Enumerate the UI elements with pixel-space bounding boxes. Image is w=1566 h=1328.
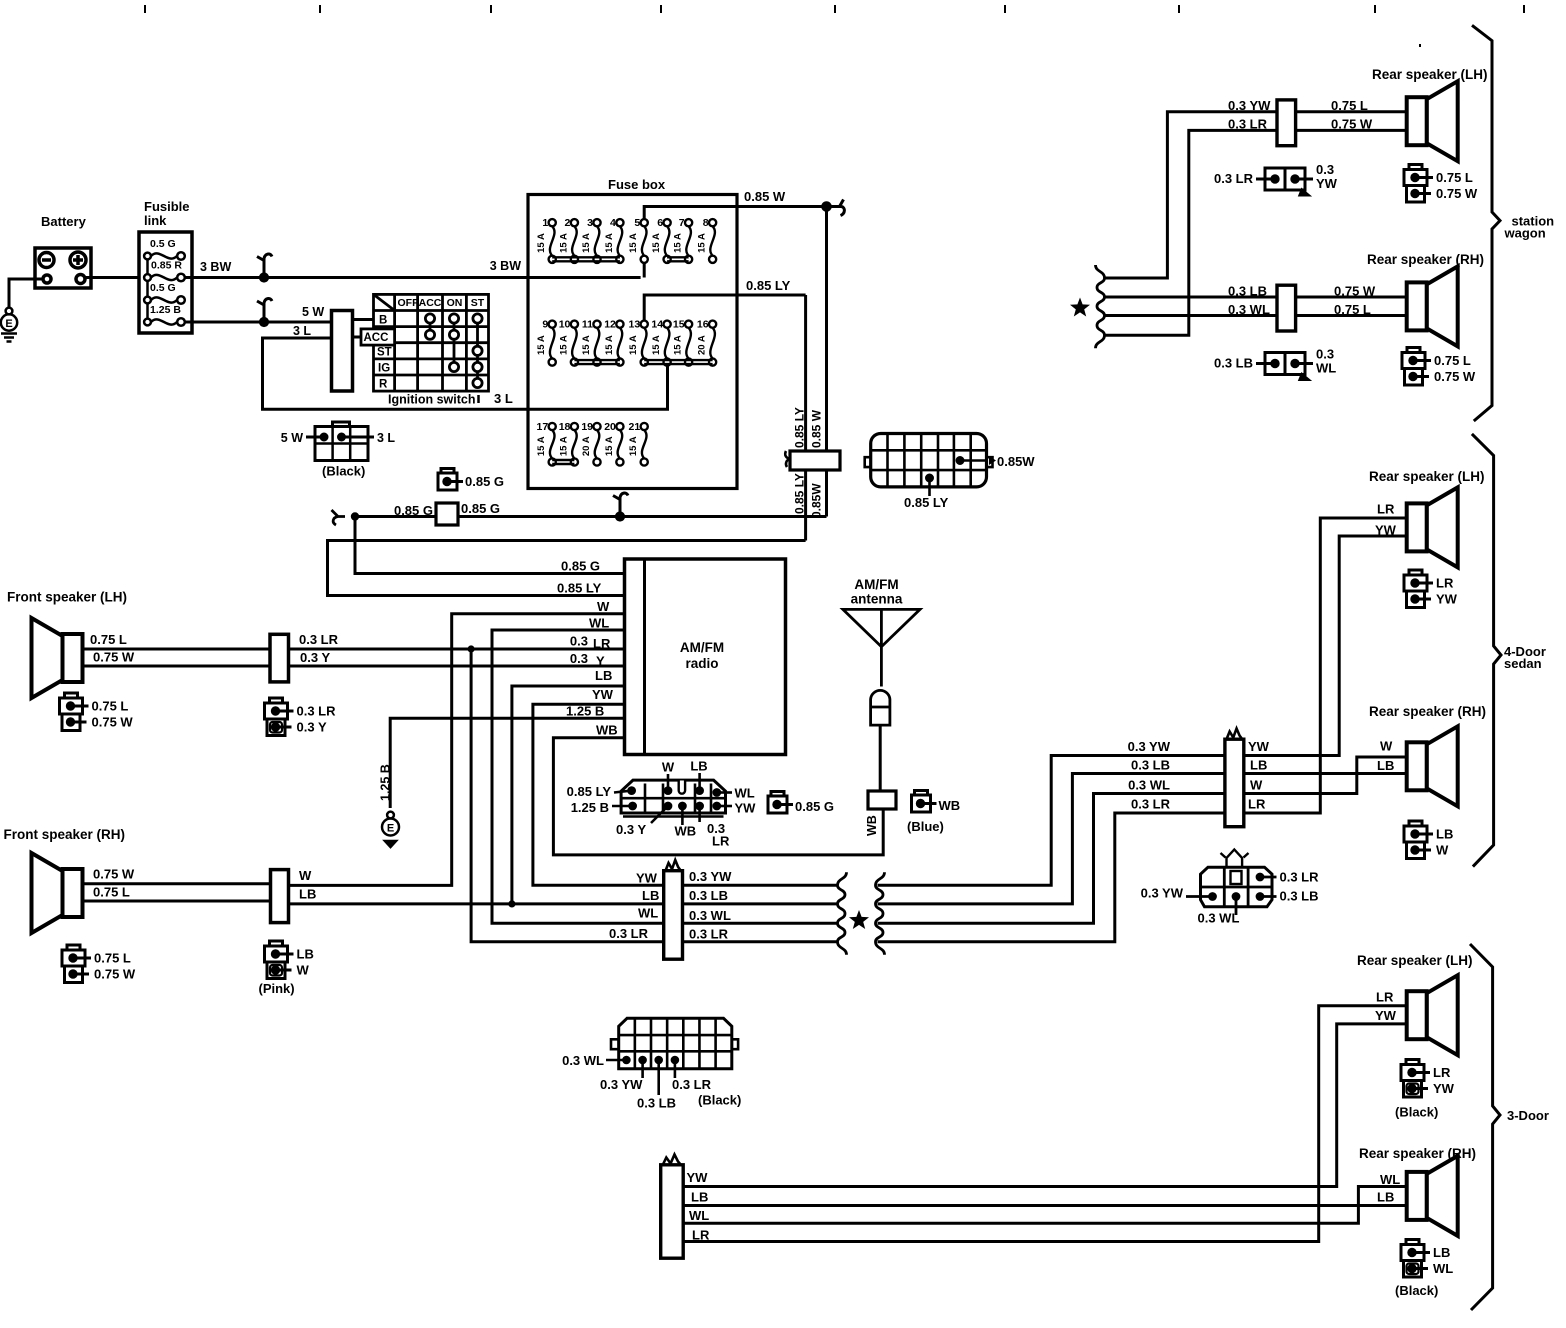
break brace right (star) [876,872,885,954]
svg-text:3 BW: 3 BW [200,260,231,274]
wire 0.75W front RH [83,882,271,885]
svg-text:1.25 B: 1.25 B [571,800,609,815]
svg-text:0.3 LR: 0.3 LR [1280,870,1320,885]
svg-text:0.3 LB: 0.3 LB [1228,284,1267,299]
svg-text:0.85 R: 0.85 R [151,260,182,272]
svg-text:LR: LR [1436,576,1454,591]
svg-text:0.5 G: 0.5 G [150,282,176,294]
svg-text:YW: YW [1316,176,1338,191]
svg-text:15 A: 15 A [581,233,592,253]
wire WL 3-door [683,1187,1406,1224]
svg-text:3 L: 3 L [377,431,395,445]
antenna plug capsule [871,690,890,725]
svg-text:1: 1 [542,217,548,229]
svg-text:5 W: 5 W [281,431,303,445]
svg-text:15: 15 [673,319,685,331]
svg-text:15 A: 15 A [604,436,615,456]
svg-text:12: 12 [604,319,616,331]
svg-text:ACC: ACC [364,332,389,344]
svg-text:3 L: 3 L [494,391,513,406]
svg-text:15 A: 15 A [628,335,639,355]
svg-text:W: W [299,868,312,883]
svg-text:0.85 LY: 0.85 LY [793,407,807,448]
svg-text:WL: WL [735,786,755,801]
svg-text:10: 10 [559,319,571,331]
svg-text:OFF: OFF [398,297,420,309]
svg-text:(Blue): (Blue) [907,819,944,834]
svg-text:YW: YW [1375,523,1397,538]
svg-text:18: 18 [559,421,571,433]
svg-text:17: 17 [537,421,549,433]
svg-text:0.3 LR: 0.3 LR [609,926,649,941]
svg-text:15 A: 15 A [628,436,639,456]
wire 3BW fusible link to fuse box [185,276,528,279]
svg-text:0.75 W: 0.75 W [1331,117,1373,132]
connector 0.85G pigtail icon [771,792,784,797]
svg-text:LB: LB [1377,758,1394,773]
svg-text:20: 20 [604,421,616,433]
svg-text:0.85 G: 0.85 G [561,559,600,574]
svg-text:15 A: 15 A [651,335,662,355]
svg-text:1.25 B: 1.25 B [566,704,604,719]
svg-text:11: 11 [582,319,593,331]
bracket 4-door sedan [1472,434,1501,867]
ignition harness connector (Black) [281,422,396,479]
svg-text:15 A: 15 A [536,436,547,456]
svg-text:0.3 Y: 0.3 Y [297,720,327,735]
fuse row 3 (fuses 17-21) [536,421,648,466]
svg-text:0.3 LB: 0.3 LB [1214,356,1253,371]
svg-text:WL: WL [638,906,658,921]
svg-text:15 A: 15 A [604,233,615,253]
svg-text:LB: LB [690,759,707,774]
svg-text:0.3 WL: 0.3 WL [562,1053,604,1068]
connector pair LB/W (Pink) [270,941,283,946]
svg-text:LB: LB [1377,1190,1394,1205]
svg-text:3 BW: 3 BW [490,259,521,273]
svg-text:0.3 LR: 0.3 LR [299,632,339,647]
break brace left (star) [838,872,847,954]
break brace (station wagon) [1096,265,1105,348]
wire 3L inside fuse box [528,364,668,409]
svg-text:antenna: antenna [851,592,903,607]
svg-text:W: W [1380,739,1393,754]
wire 0.75L front LH [83,648,271,651]
svg-text:19: 19 [581,421,593,433]
svg-text:WB: WB [865,815,879,836]
wire LB C2 to sedan speaker RH [1244,772,1407,775]
svg-text:0.85 LY: 0.85 LY [567,784,612,799]
svg-text:0.85W: 0.85W [810,483,824,518]
svg-text:0.3 LR: 0.3 LR [297,704,337,719]
svg-text:WB: WB [939,798,961,813]
svg-text:0.3 YW: 0.3 YW [689,869,732,884]
wire 0.85LY fuse box to radio [328,295,806,596]
wire 0.3WL to wagon speaker RH [1104,314,1277,317]
svg-text:0.75 L: 0.75 L [1434,353,1471,368]
svg-text:W: W [597,599,610,614]
svg-text:(Black): (Black) [1395,1105,1438,1120]
svg-text:0.85 G: 0.85 G [465,474,504,489]
wire YW radio to bus [533,704,664,885]
svg-text:0.75 W: 0.75 W [94,967,136,982]
wire 1.25B radio to ground [390,718,624,808]
svg-text:4: 4 [610,217,616,229]
svg-text:0.75 L: 0.75 L [90,632,127,647]
svg-text:AM/FM: AM/FM [854,577,898,592]
harness connector 18-pin (Black) [562,1018,741,1110]
svg-text:0.3 WL: 0.3 WL [1198,911,1240,926]
svg-text:WL: WL [1433,1261,1453,1276]
svg-text:0.85 LY: 0.85 LY [746,278,791,293]
svg-text:W: W [1250,778,1263,793]
svg-text:0.3 LR: 0.3 LR [689,927,729,942]
inline connector front LH [270,634,289,682]
svg-text:7: 7 [679,217,685,229]
svg-text:ACC: ACC [419,297,442,309]
ignition switch [361,294,489,391]
svg-text:W: W [662,760,675,775]
svg-text:20 A: 20 A [581,436,592,456]
svg-text:(Pink): (Pink) [259,981,295,996]
svg-text:0.75 L: 0.75 L [1436,170,1473,185]
star symbol (middle) [849,910,869,929]
svg-text:0.75 W: 0.75 W [93,650,135,665]
svg-text:14: 14 [651,319,663,331]
svg-text:0.85 G: 0.85 G [795,799,834,814]
svg-text:15 A: 15 A [673,335,684,355]
svg-text:(Black): (Black) [322,464,365,479]
junction 0.85W [823,203,831,211]
svg-text:0.3 YW: 0.3 YW [1228,98,1271,113]
svg-text:0.3 LB: 0.3 LB [1280,889,1319,904]
connector 0.85G pigtail icon (near ignition) [441,469,454,474]
svg-text:0.3 LR: 0.3 LR [672,1077,712,1092]
wires C1 to break [683,885,838,941]
wire WB radio to antenna lead [553,738,883,855]
svg-text:15 A: 15 A [604,335,615,355]
harness connector 6-pin (sedan) [1141,850,1320,926]
wire 0.3LR to radio [289,648,625,651]
page tick marks [145,5,1524,47]
wire 0.75L wagon RH [1296,314,1407,317]
svg-text:6: 6 [657,217,663,229]
svg-text:R: R [379,379,388,391]
inline connector (3-door feed) [662,1155,682,1167]
svg-text:15 A: 15 A [673,233,684,253]
wire 0.75W wagon RH [1296,296,1407,299]
svg-text:5: 5 [634,217,640,229]
svg-text:0.75 W: 0.75 W [1436,186,1478,201]
svg-text:YW: YW [1248,739,1270,754]
svg-text:AM/FM: AM/FM [680,640,724,655]
break end on 0.85 G wire [332,510,346,525]
svg-text:0.3 WL: 0.3 WL [1128,778,1170,793]
svg-text:0.75 L: 0.75 L [1334,302,1371,317]
svg-text:(Black): (Black) [698,1093,741,1108]
wire WL radio to bus [492,630,664,923]
svg-text:Front speaker (LH): Front speaker (LH) [7,590,127,605]
svg-text:0.85 LY: 0.85 LY [793,473,807,514]
svg-text:15 A: 15 A [581,335,592,355]
battery [35,214,91,288]
wire 0.75L wagon LH [1296,110,1407,113]
svg-text:Ignition switch: Ignition switch [388,393,476,407]
svg-text:15 A: 15 A [628,233,639,253]
svg-text:0.3: 0.3 [570,651,588,666]
wire 0.3LR junction to bus [471,649,664,942]
svg-text:0.85 W: 0.85 W [810,409,824,448]
connector WB (Blue) icon [915,791,928,796]
svg-text:0.75 W: 0.75 W [1434,369,1476,384]
svg-text:13: 13 [629,319,641,331]
svg-text:0.3: 0.3 [1316,162,1334,177]
svg-text:YW: YW [636,871,658,886]
connector pair 0.75L/0.75W (wagon RH) [1407,348,1420,353]
svg-text:radio: radio [685,656,718,671]
svg-text:0.3 LB: 0.3 LB [1131,758,1170,773]
svg-text:1.25 B: 1.25 B [150,304,181,316]
svg-text:0.75 W: 0.75 W [1334,284,1376,299]
svg-text:WB: WB [596,723,618,738]
svg-text:ON: ON [447,297,463,309]
svg-text:YW: YW [1436,592,1458,607]
svg-text:15 A: 15 A [558,335,569,355]
connector pair 0.75L/0.75W (front LH pigtail) [65,693,78,698]
svg-text:LB: LB [595,668,612,683]
svg-text:WL: WL [689,1208,709,1223]
wire YW C2 to sedan speaker LH [1244,536,1407,756]
svg-text:LB: LB [691,1190,708,1205]
svg-text:LR: LR [692,1228,710,1243]
svg-text:0.3 YW: 0.3 YW [1141,886,1184,901]
svg-text:0.75 L: 0.75 L [1331,98,1368,113]
svg-text:16: 16 [697,319,709,331]
svg-text:WB: WB [675,824,697,839]
antenna inline connector [868,791,896,809]
svg-text:15 A: 15 A [558,233,569,253]
wire 0.3Y to radio [289,665,625,668]
svg-text:LB: LB [1250,758,1267,773]
svg-text:WL: WL [589,616,609,631]
fusible link [139,199,192,333]
svg-text:0.3 LB: 0.3 LB [637,1096,676,1111]
wire 0.75W wagon LH [1296,129,1407,132]
fuse box harness grid connector [865,434,1036,511]
svg-text:YW: YW [687,1170,709,1185]
svg-text:LB: LB [1436,827,1453,842]
wire 0.75L front RH [83,900,271,903]
svg-text:YW: YW [1375,1008,1397,1023]
svg-text:WL: WL [1380,1172,1400,1187]
svg-text:15 A: 15 A [536,335,547,355]
svg-text:15 A: 15 A [558,436,569,456]
svg-text:LR: LR [712,834,730,849]
svg-text:LB: LB [642,888,659,903]
svg-text:3 L: 3 L [293,324,311,338]
wire 0.3LB to wagon speaker RH [1104,296,1277,299]
wire 0.85W fuse box to radio [528,263,644,278]
svg-text:sedan: sedan [1504,656,1542,671]
svg-text:ST: ST [377,347,392,359]
svg-text:15 A: 15 A [651,233,662,253]
wire 3L ignition switch to fuse box [263,338,529,409]
svg-text:(Black): (Black) [1395,1283,1438,1298]
svg-text:1.25 B: 1.25 B [379,764,393,801]
svg-text:0.3 LB: 0.3 LB [689,888,728,903]
bracket 3-door [1470,944,1500,1310]
svg-text:YW: YW [1433,1081,1455,1096]
svg-text:Rear speaker (LH): Rear speaker (LH) [1357,953,1473,968]
connector stub on 3BW wire [260,274,267,281]
svg-text:YW: YW [735,801,757,816]
svg-text:Rear speaker (LH): Rear speaker (LH) [1369,469,1485,484]
inline connector C2 [1226,729,1243,741]
inline connector C1 [665,860,681,872]
connector pair LR/YW (3-door LH, Black) [1406,1060,1419,1065]
svg-text:9: 9 [542,319,548,331]
svg-text:21: 21 [629,421,641,433]
svg-text:20 A: 20 A [697,335,708,355]
wire LB front RH to radio and connector [289,902,664,905]
svg-text:0.85 LY: 0.85 LY [904,495,949,510]
svg-text:0.3 LR: 0.3 LR [1131,797,1171,812]
svg-text:0.85 G: 0.85 G [394,503,433,518]
svg-text:Rear speaker (LH): Rear speaker (LH) [1372,67,1488,82]
connector stub on 0.85G wire [616,513,623,520]
svg-text:0.75 L: 0.75 L [93,885,130,900]
svg-text:8: 8 [703,217,709,229]
connector stub on 5W wire [260,318,267,325]
ground E (battery) [1,308,17,342]
svg-text:LR: LR [1377,502,1395,517]
svg-text:B: B [379,315,387,327]
svg-text:0.75 L: 0.75 L [92,699,129,714]
svg-text:ST: ST [471,297,485,309]
svg-text:0.3: 0.3 [570,634,588,649]
wires break to L-bends [878,756,1225,886]
svg-text:2: 2 [565,217,571,229]
svg-text:Front speaker (RH): Front speaker (RH) [4,827,126,842]
connector pair 0.75L/0.75W (front RH pigtail) [67,945,80,950]
svg-text:0.5 G: 0.5 G [150,238,176,250]
svg-text:IG: IG [378,363,390,375]
svg-text:0.3 YW: 0.3 YW [600,1077,643,1092]
svg-text:WL: WL [1316,361,1336,376]
ground E (radio) [382,812,399,847]
svg-text:0.75 W: 0.75 W [92,715,134,730]
svg-text:0.3 LR: 0.3 LR [1214,171,1254,186]
svg-text:0.3 LR: 0.3 LR [1228,117,1268,132]
connector pair 0.3LR/0.3YW (wagon LH) [1265,168,1285,190]
AM/FM radio [625,559,786,755]
wire 5W fusible link to ignition switch connector [185,321,332,324]
svg-text:0.3 Y: 0.3 Y [616,822,646,837]
svg-text:Fuse box: Fuse box [608,177,666,192]
inline connector (wagon LH) [1277,100,1296,146]
wire battery negative to ground [9,279,43,307]
connector pair 0.3LR/0.3Y (Black) [270,698,283,703]
svg-text:Rear speaker (RH): Rear speaker (RH) [1369,704,1486,719]
wire LB 3-door [683,1204,1406,1207]
svg-text:E: E [387,823,394,835]
connector pair LR/YW (sedan LH) [1409,570,1422,575]
svg-text:0.3 WL: 0.3 WL [689,908,731,923]
wire battery positive to fusible link [85,276,139,279]
svg-text:0.3 WL: 0.3 WL [1228,302,1270,317]
connector pair 0.75L/0.75W (wagon LH) [1409,165,1422,170]
inline connector (wagon RH) [1277,285,1296,331]
svg-text:Battery: Battery [41,214,87,229]
svg-text:3-Door: 3-Door [1507,1108,1549,1123]
wire YW 3-door [683,1024,1406,1187]
inline connector on 0.85G wire [436,503,458,525]
svg-text:LB: LB [1433,1245,1450,1260]
connector pair 0.3LB/0.3WL (wagon RH) [1265,353,1285,375]
connector pair LB/W (sedan RH) [1409,821,1422,826]
svg-text:0.3 Y: 0.3 Y [300,650,330,665]
svg-text:E: E [5,318,12,330]
ignition switch connector [332,311,353,392]
svg-text:3: 3 [587,217,593,229]
star symbol (station wagon) [1070,298,1090,317]
wire 0.3LR to wagon speaker LH [1104,130,1277,335]
wire 0.3YW to wagon speaker LH [1104,112,1277,278]
svg-text:0.75 L: 0.75 L [94,951,131,966]
wire W front RH to radio [289,614,625,886]
svg-text:YW: YW [592,687,614,702]
fuse row 1 (fuses 1-8, 15A) [536,217,716,263]
svg-text:LR: LR [1248,797,1266,812]
inline connector front RH [271,870,289,923]
bracket station wagon [1472,25,1500,421]
svg-text:0.85 W: 0.85 W [744,189,786,204]
svg-text:0.85 G: 0.85 G [461,501,500,516]
svg-text:0.85 LY: 0.85 LY [557,581,602,596]
svg-text:0.3 YW: 0.3 YW [1128,739,1171,754]
svg-text:Rear speaker (RH): Rear speaker (RH) [1367,252,1484,267]
fuse row 2 (fuses 9-16) [536,319,716,366]
svg-text:0.3: 0.3 [1316,347,1334,362]
svg-text:15 A: 15 A [697,233,708,253]
svg-text:0.75 W: 0.75 W [93,867,135,882]
connector pair LB/WL (3-door RH, Black) [1406,1240,1419,1245]
svg-text:wagon: wagon [1504,226,1546,241]
svg-text:LR: LR [1376,990,1394,1005]
svg-text:5 W: 5 W [302,305,324,319]
radio input labels [557,559,618,738]
wire W C2 to sedan speaker RH [1244,757,1407,794]
svg-text:15 A: 15 A [536,233,547,253]
svg-text:link: link [144,213,167,228]
svg-text:LB: LB [299,887,316,902]
svg-text:Fusible: Fusible [144,199,190,214]
inline connector on 0.85LY/0.85W wires [785,451,790,467]
radio harness connector (10-pin) [567,759,757,849]
svg-text:W: W [1436,843,1449,858]
wire LR C2 to sedan speaker LH [1244,518,1407,813]
svg-text:0.85W: 0.85W [997,454,1035,469]
wire LR 3-door [683,1006,1406,1242]
wire 0.75W front LH [83,665,271,668]
svg-text:W: W [297,963,310,978]
svg-text:LR: LR [1433,1065,1451,1080]
svg-text:LB: LB [297,947,314,962]
